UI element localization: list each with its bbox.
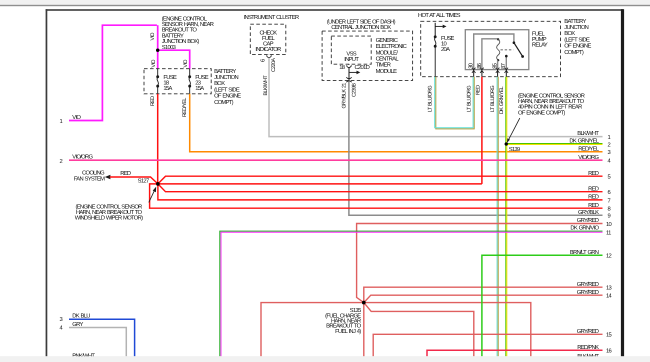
svg-text:FAN SYSTEM: FAN SYSTEM xyxy=(74,175,105,182)
wire DK GRN/YEL pin87 down yellow stripe xyxy=(506,77,508,357)
branch arrow right below pin 18 xyxy=(349,71,357,73)
wire S135 lower diagonal branch riser x474 xyxy=(364,303,474,357)
splice S127 xyxy=(156,182,160,186)
svg-text:BLK/WHT: BLK/WHT xyxy=(577,130,599,137)
label FUSE 23 15A xyxy=(195,74,209,92)
svg-text:BRN/LT GRN: BRN/LT GRN xyxy=(570,249,599,256)
wire DK GRN/VIO row11 green stripe riser xyxy=(220,231,603,356)
svg-text:MODULE/: MODULE/ xyxy=(376,49,399,56)
svg-text:2: 2 xyxy=(60,158,63,165)
wire DK GRN/YEL S139 to edge row2 green stripe xyxy=(506,143,602,145)
label FUEL PUMP RELAY xyxy=(532,32,548,49)
page frame top edge xyxy=(46,9,624,11)
bottom status strip overlay xyxy=(0,356,650,362)
svg-text:OF ENGINE COMPT): OF ENGINE COMPT) xyxy=(518,109,565,116)
fuse 23 element xyxy=(189,69,191,94)
svg-text:RED: RED xyxy=(588,171,599,177)
svg-text:RELAY: RELAY xyxy=(532,43,548,49)
svg-text:VIO: VIO xyxy=(183,60,189,68)
label VSS INPUT xyxy=(344,50,359,63)
svg-text:15: 15 xyxy=(606,333,612,339)
svg-text:GRY/BLK: GRY/BLK xyxy=(578,209,599,216)
fuse 10 element xyxy=(434,36,436,77)
wire S135 down branch xyxy=(363,303,365,357)
svg-text:LT BLU/ORG: LT BLU/ORG xyxy=(490,85,496,112)
svg-text:16: 16 xyxy=(606,348,612,355)
svg-text:C201D: C201D xyxy=(355,64,370,71)
GEM inner dashed box xyxy=(331,36,371,64)
splice S135 xyxy=(362,301,366,305)
relay coil top dot xyxy=(497,38,499,40)
wire RED S127 to edge row6 xyxy=(158,184,603,192)
label FUSE 18 15A xyxy=(163,74,177,92)
svg-text:DK GRN/YEL: DK GRN/YEL xyxy=(569,138,599,145)
relay internal pin30 to switch common xyxy=(474,34,514,70)
relay contact dot xyxy=(505,55,508,58)
svg-text:COOLING: COOLING xyxy=(82,169,105,176)
svg-text:GRY/RED: GRY/RED xyxy=(577,328,599,335)
fuel pump relay box xyxy=(465,30,529,70)
relay internal pin87 contact xyxy=(505,57,507,70)
arrow note to S127 xyxy=(149,191,155,203)
fuse 18 element xyxy=(157,69,159,94)
relay coil bottom dot xyxy=(497,59,499,61)
page frame left edge xyxy=(46,9,48,356)
svg-text:11: 11 xyxy=(606,231,611,237)
svg-text:S139: S139 xyxy=(509,146,520,153)
battery junction box 2 dashed outline xyxy=(421,21,561,76)
arrow note to S139 xyxy=(509,118,520,139)
svg-text:RED: RED xyxy=(150,96,156,106)
label COOLING FAN SYSTEM xyxy=(74,169,105,182)
wire S135 up branch to edge row13 xyxy=(364,287,603,302)
connector C239B inline symbol xyxy=(346,77,351,82)
label battery junction box 2 xyxy=(564,19,591,56)
wire BRN/LT GRN row12 riser xyxy=(482,255,603,356)
svg-text:GRY/BLK 21: GRY/BLK 21 xyxy=(341,83,347,109)
wire VIO vertical into S1003 node xyxy=(157,25,159,68)
svg-text:87: 87 xyxy=(500,63,507,69)
splice S139 dot overlay xyxy=(505,142,508,145)
wire BLK/WHT cluster down to edge row1 xyxy=(269,58,603,137)
svg-text:VIO: VIO xyxy=(150,33,156,41)
wire fuse 10 feed black xyxy=(434,23,436,36)
svg-text:BATTERY: BATTERY xyxy=(214,69,236,75)
wire RED S127 to edge row5 xyxy=(158,176,603,184)
right edge labels and numbers xyxy=(569,130,599,360)
svg-text:GRY/RED: GRY/RED xyxy=(577,281,599,288)
wire GRY/RED row15 riser xyxy=(373,334,602,356)
label S135 xyxy=(325,307,362,335)
wire GRY/RED corner to S135 xyxy=(357,224,603,303)
svg-text:MODULE: MODULE xyxy=(376,68,398,75)
svg-text:WINDSHIELD WIPER MOTOR): WINDSHIELD WIPER MOTOR) xyxy=(75,215,143,222)
engine control sensor harn 40-pin note xyxy=(518,93,585,117)
page frame right edge xyxy=(621,9,624,356)
bottom status strip xyxy=(0,356,650,362)
svg-text:RED: RED xyxy=(120,171,131,177)
label S1003 text block xyxy=(162,15,214,51)
svg-text:BATTERY: BATTERY xyxy=(564,19,586,25)
svg-text:JUNCTION: JUNCTION xyxy=(214,74,238,81)
svg-text:RED: RED xyxy=(588,195,599,201)
instrument cluster dashed box xyxy=(250,24,285,54)
wire RED S127 to edge row8 xyxy=(150,184,603,208)
svg-text:15A: 15A xyxy=(163,86,172,92)
central junction box outer dashed box xyxy=(322,31,413,80)
wire DK BLU row3 riser xyxy=(69,319,135,356)
svg-text:VIO: VIO xyxy=(72,114,81,121)
relay switch pivot dot xyxy=(513,41,516,44)
wire RED cooling fan to S127 xyxy=(110,177,158,184)
svg-text:DK GRN/VIO: DK GRN/VIO xyxy=(570,225,599,232)
svg-text:18: 18 xyxy=(339,64,345,71)
wire GRY row4 riser xyxy=(69,328,126,357)
wire S135 right branch riser x531 xyxy=(364,303,531,357)
relay mechanical link dashes xyxy=(501,49,514,51)
relay switch arm xyxy=(514,43,522,56)
svg-text:CENTRAL JUNCTION BOX: CENTRAL JUNCTION BOX xyxy=(331,24,391,31)
svg-text:COMPT): COMPT) xyxy=(214,99,234,106)
svg-text:S127: S127 xyxy=(138,177,149,184)
svg-text:GRY/RED: GRY/RED xyxy=(577,217,599,224)
svg-text:OF ENGINE: OF ENGINE xyxy=(564,43,591,50)
wire VIO left-edge row1 to S1003 riser xyxy=(69,25,157,120)
svg-text:CENTRAL: CENTRAL xyxy=(376,56,400,63)
svg-text:RED/YEL: RED/YEL xyxy=(182,98,188,117)
wire LT BLU/ORG fuse10 U-link to pin 30 tan stripe xyxy=(436,77,474,129)
wire DK GRN/VIO row11 magenta stripe riser xyxy=(221,232,603,356)
relay internal pin86 to coil top xyxy=(482,39,498,70)
svg-text:(LEFT SIDE: (LEFT SIDE xyxy=(564,36,590,43)
wire LT BLU/ORG pin85 down cyan stripe xyxy=(496,77,498,357)
svg-text:OF ENGINE: OF ENGINE xyxy=(214,93,241,100)
label generic electronic module xyxy=(376,37,407,75)
wire LT BLU/ORG fuse10 U-link to pin 30 cyan stripe xyxy=(435,77,473,128)
wire S135 left branch riser x261 xyxy=(261,303,364,357)
connector C220A socket arc xyxy=(267,55,272,58)
label CHECK FUEL CAP INDICATOR xyxy=(255,30,281,54)
svg-text:LT BLU/ORG: LT BLU/ORG xyxy=(467,85,473,112)
wire GEM pin stub black xyxy=(348,68,350,81)
wire S135 diagonal branch to edge row14 xyxy=(364,295,603,302)
svg-text:C239B: C239B xyxy=(351,83,357,97)
wire RED relay pin86 down to S127 level xyxy=(481,77,483,184)
wire VIO/ORG row2 to edge row4 xyxy=(69,159,603,161)
relay pin stubs to box boundary xyxy=(474,70,507,77)
cooling fan arrowhead xyxy=(105,175,111,180)
svg-text:ELECTRONIC: ELECTRONIC xyxy=(376,43,407,50)
svg-text:12: 12 xyxy=(606,253,612,260)
splice S139 xyxy=(505,142,508,145)
svg-text:GENERIC: GENERIC xyxy=(376,37,398,44)
svg-text:15A: 15A xyxy=(195,86,204,92)
wire RED fuse18 down to S127 xyxy=(157,94,159,184)
svg-text:RED/PNK: RED/PNK xyxy=(577,344,599,351)
splice S1003 xyxy=(156,49,159,52)
relay pin connector symbols xyxy=(472,68,508,73)
svg-text:INPUT: INPUT xyxy=(344,57,359,63)
svg-text:FUEL INJ 4): FUEL INJ 4) xyxy=(335,328,361,335)
svg-text:BLK/WHT: BLK/WHT xyxy=(263,74,269,95)
svg-text:85: 85 xyxy=(492,63,499,69)
svg-text:RED: RED xyxy=(588,186,599,192)
svg-text:VIO: VIO xyxy=(151,60,157,68)
splice S135 dot overlay xyxy=(362,301,366,305)
wire DK GRN/YEL S139 to edge row2 yellow stripe xyxy=(506,144,602,146)
svg-text:BOX: BOX xyxy=(214,80,225,87)
wiper motor harness note xyxy=(75,203,143,221)
top toolbar strip xyxy=(0,0,650,5)
svg-text:BOX: BOX xyxy=(564,30,575,37)
relay switch arm tip blob xyxy=(521,55,524,58)
svg-text:RED/YEL: RED/YEL xyxy=(578,145,600,152)
hot feed arrow xyxy=(435,25,443,27)
svg-text:13: 13 xyxy=(606,285,612,292)
wire LT BLU/ORG pin85 down olive stripe xyxy=(497,77,499,357)
svg-text:(LEFT SIDE: (LEFT SIDE xyxy=(214,86,240,93)
svg-text:6: 6 xyxy=(260,59,267,62)
svg-text:COMPT): COMPT) xyxy=(564,49,584,56)
svg-text:TIMER: TIMER xyxy=(376,63,391,69)
svg-text:1: 1 xyxy=(60,119,63,125)
wire VIO branch S1003 to fuse 23 xyxy=(158,50,190,68)
svg-text:LT BLU/ORG: LT BLU/ORG xyxy=(428,85,434,112)
relay internal pin85 from coil xyxy=(497,60,499,69)
wire RED/YEL fuse23 down and right to edge row3 xyxy=(190,94,603,152)
svg-text:RED: RED xyxy=(588,203,599,209)
svg-text:20A: 20A xyxy=(441,46,450,53)
connector C201D socket arc xyxy=(347,64,352,67)
svg-text:HOT AT ALL TIMES: HOT AT ALL TIMES xyxy=(418,12,461,19)
wire GRY/BLK GEM down to edge row9 xyxy=(349,82,603,216)
svg-text:RED: RED xyxy=(475,85,481,95)
svg-text:30: 30 xyxy=(468,63,475,69)
svg-text:DK GRN/YEL: DK GRN/YEL xyxy=(499,86,505,114)
svg-text:GRY/RED: GRY/RED xyxy=(577,289,599,296)
svg-text:10: 10 xyxy=(606,221,612,228)
svg-text:VIO/ORG: VIO/ORG xyxy=(578,154,599,161)
battery junction box 1 dashed outline xyxy=(144,69,211,94)
svg-text:INSTRUMENT CLUSTER: INSTRUMENT CLUSTER xyxy=(244,14,299,21)
svg-text:S1003: S1003 xyxy=(162,44,176,51)
toolbar divider line xyxy=(0,5,650,6)
wire RED/PNK row16 riser xyxy=(427,350,603,356)
svg-text:JUNCTION: JUNCTION xyxy=(564,24,588,31)
svg-text:C220A: C220A xyxy=(271,58,277,72)
label battery junction box 1 xyxy=(214,69,241,106)
wire RED S127 to edge row7 xyxy=(158,184,603,200)
svg-text:86: 86 xyxy=(476,63,483,69)
wire DK GRN/YEL pin87 down to S139 green stripe xyxy=(505,77,507,357)
splice S127 dot overlay xyxy=(156,182,160,186)
wire RED S127 to relay coil xyxy=(158,183,482,185)
svg-text:INDICATOR: INDICATOR xyxy=(255,46,281,53)
relay coil winding xyxy=(497,39,500,60)
label FUSE 10 20A xyxy=(441,35,455,53)
svg-text:3: 3 xyxy=(60,316,63,323)
